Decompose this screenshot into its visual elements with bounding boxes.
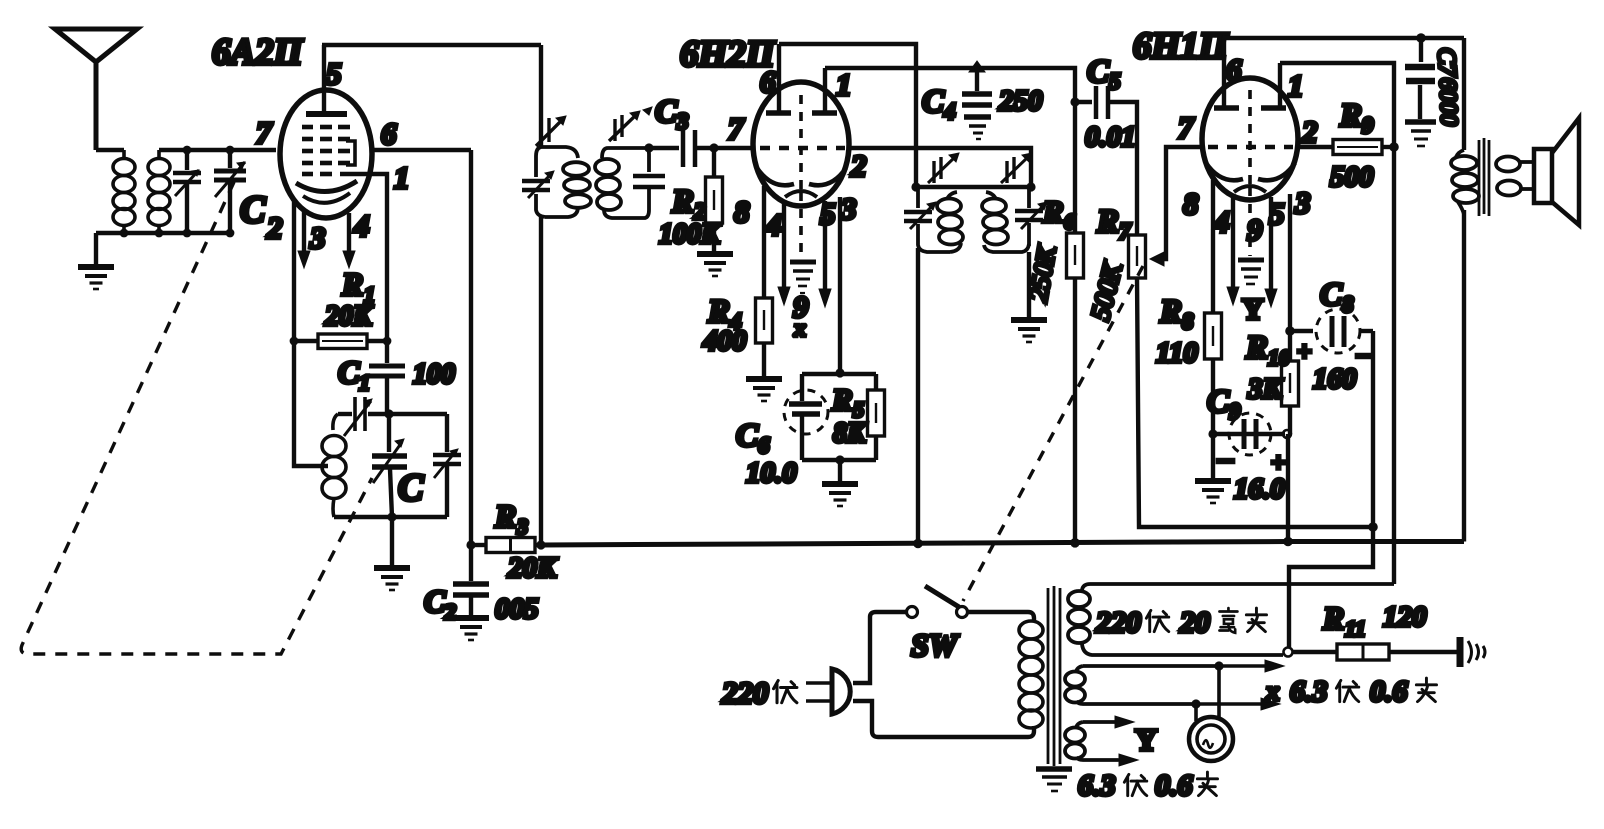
svg-text:C: C xyxy=(424,583,446,619)
wire pin5 to IF1 top xyxy=(322,43,541,47)
svg-text:4: 4 xyxy=(353,208,370,243)
output transformer core xyxy=(1479,138,1489,216)
wire top line pin6 to output transformer xyxy=(1224,36,1464,40)
wire pin1 to C4/C5 xyxy=(825,68,1075,102)
pin 1 lead up xyxy=(1278,63,1282,108)
ground (oscillator) xyxy=(390,517,394,565)
svg-text:9: 9 xyxy=(1229,399,1241,424)
svg-text:4: 4 xyxy=(1213,204,1230,239)
svg-text:C7: C7 xyxy=(1432,47,1461,79)
svg-text:8: 8 xyxy=(1183,186,1199,221)
dashed gang link: SW to R7 xyxy=(963,266,1143,601)
svg-text:5: 5 xyxy=(820,196,836,231)
svg-text:R: R xyxy=(341,266,363,302)
svg-text:C: C xyxy=(655,94,678,130)
R7 wiper arrow to pin 7 of U3 xyxy=(1150,252,1164,266)
tube U3 6N1P envelope xyxy=(1202,78,1298,200)
wire IF1 bottom to R3 node xyxy=(539,217,543,545)
oscillator coil L3 xyxy=(322,414,346,517)
svg-text:6.3: 6.3 xyxy=(1290,675,1328,708)
svg-text:R: R xyxy=(671,184,694,220)
pin 9 shield to ground xyxy=(799,192,803,258)
pin 1 wire down to R1 right xyxy=(340,174,387,341)
wire plug to primary loop xyxy=(853,612,906,683)
svg-text:R: R xyxy=(494,498,516,534)
svg-text:500: 500 xyxy=(1330,161,1374,193)
svg-text:6: 6 xyxy=(1064,209,1075,234)
svg-text:SW: SW xyxy=(911,627,960,663)
node T2 top / C3 xyxy=(644,143,653,152)
switch SW xyxy=(907,607,918,618)
antenna xyxy=(55,29,137,150)
svg-text:1: 1 xyxy=(836,67,852,102)
svg-text:1: 1 xyxy=(359,370,370,395)
svg-text:2: 2 xyxy=(1301,114,1318,149)
variable capacitor C (oscillator gang 2) xyxy=(387,414,391,452)
resistor R5 xyxy=(874,374,878,390)
svg-text:R: R xyxy=(1159,294,1182,330)
pin 6 lead up xyxy=(777,44,781,113)
capacitor C4 xyxy=(969,61,985,72)
svg-text:1: 1 xyxy=(394,160,410,195)
svg-text:R: R xyxy=(1322,600,1344,636)
svg-text:7: 7 xyxy=(728,111,745,146)
resistor R3 xyxy=(466,540,475,549)
svg-text:120: 120 xyxy=(1383,601,1427,633)
pin 2 lead / resistor R9 xyxy=(1298,145,1333,149)
pin 4 filament arrow xyxy=(782,201,786,288)
terminal circle R11 node xyxy=(1284,648,1293,657)
node oscillator tank top xyxy=(384,409,393,418)
svg-text:250: 250 xyxy=(998,85,1043,117)
capacitor C7 xyxy=(1419,38,1423,62)
T3 tuning core 2 xyxy=(1001,153,1032,183)
capacitor C1 xyxy=(385,341,389,363)
svg-text:2: 2 xyxy=(444,599,456,624)
pin 2 wire to T3 xyxy=(849,148,1031,187)
T1 tuning core symbol xyxy=(536,116,566,146)
svg-text:0.6: 0.6 xyxy=(1155,769,1193,802)
resistor R2 xyxy=(712,148,716,177)
tube U1 interior grids xyxy=(296,114,357,203)
svg-text:–: – xyxy=(1356,337,1373,370)
wire antenna to coil L1 xyxy=(96,148,124,152)
capacitor C9 electrolytic xyxy=(1213,432,1285,436)
wire B+ rail step to R11 node xyxy=(1289,527,1373,648)
ground power core xyxy=(1036,769,1072,791)
svg-text:R: R xyxy=(1042,194,1064,229)
wire IF1 primary top xyxy=(539,45,543,147)
svg-text:7: 7 xyxy=(256,115,273,150)
svg-text:110: 110 xyxy=(1156,337,1198,369)
pin 1 lead up xyxy=(823,68,827,113)
IF transformer T1 primary xyxy=(536,147,591,217)
filament secondary winding 6.3V (U2/U3) xyxy=(1065,666,1218,704)
resistor R4 on pin 8 xyxy=(762,186,766,298)
svg-text:C: C xyxy=(338,354,360,390)
svg-text:3: 3 xyxy=(516,514,528,539)
svg-text:3: 3 xyxy=(676,109,689,134)
power transformer primary coil xyxy=(1019,621,1043,728)
svg-text:C: C xyxy=(1320,277,1343,313)
svg-text:3: 3 xyxy=(840,191,857,226)
svg-text:–: – xyxy=(1217,442,1234,475)
svg-text:8: 8 xyxy=(734,194,750,229)
pin 8 / resistor R8 xyxy=(1211,180,1215,313)
svg-text:11: 11 xyxy=(1345,616,1366,641)
svg-text:220: 220 xyxy=(721,675,769,710)
pin 3 wire down to cathode network xyxy=(838,197,842,373)
wire R7 bottom to C8 minus rail xyxy=(1137,278,1373,527)
node input bottom bus xyxy=(96,231,230,235)
svg-text:9: 9 xyxy=(1362,113,1374,138)
output terminal connector xyxy=(1457,637,1464,667)
dashed gang link: tuning C to oscillator C xyxy=(21,182,372,654)
pin 5 lead xyxy=(322,45,326,114)
svg-text:0.01: 0.01 xyxy=(1085,121,1136,153)
capacitor C8 electrolytic xyxy=(1290,329,1313,333)
pin 6 lead up xyxy=(1222,38,1226,108)
svg-text:3: 3 xyxy=(1294,185,1311,220)
ground T3 secondary xyxy=(1027,252,1031,317)
tube U1 6A2P envelope xyxy=(280,90,372,218)
svg-text:0.6: 0.6 xyxy=(1370,675,1408,708)
pin 4 filament arrow xyxy=(347,213,351,252)
svg-text:x: x xyxy=(1265,676,1280,706)
svg-text:8: 8 xyxy=(1182,309,1194,334)
tube U2 interior xyxy=(757,95,846,197)
svg-text:5: 5 xyxy=(1109,69,1121,94)
svg-text:8: 8 xyxy=(1342,292,1354,317)
oscillator trimmer cap xyxy=(338,412,352,416)
capacitor C2 xyxy=(469,545,473,581)
svg-text:6: 6 xyxy=(1226,52,1242,87)
svg-text:6.3: 6.3 xyxy=(1078,769,1116,802)
capacitor C3 xyxy=(649,146,679,150)
svg-text:3K: 3K xyxy=(1247,373,1284,405)
svg-text:Y: Y xyxy=(1135,722,1157,757)
svg-text:8K: 8K xyxy=(833,418,868,449)
svg-text:+: + xyxy=(1297,337,1312,366)
svg-text:10: 10 xyxy=(1268,345,1290,370)
wire tank bottom xyxy=(334,515,447,519)
svg-text:9: 9 xyxy=(1247,212,1263,247)
svg-text:C: C xyxy=(398,467,424,509)
svg-text:2: 2 xyxy=(266,210,283,245)
pin 3 wire down xyxy=(1288,194,1292,331)
ground (input) xyxy=(94,233,98,264)
svg-text:1: 1 xyxy=(1288,68,1304,103)
IF transformer T2 secondary xyxy=(595,148,649,218)
pin 6 wire to R3 node xyxy=(372,148,471,152)
svg-text:5: 5 xyxy=(326,56,342,91)
coil L2 secondary xyxy=(148,150,170,233)
svg-text:6Н1П: 6Н1П xyxy=(1133,26,1229,67)
svg-text:R: R xyxy=(831,382,853,417)
svg-text:5: 5 xyxy=(1269,196,1285,231)
wire T3 primary bottom to bus xyxy=(916,248,920,543)
svg-text:10.0: 10.0 xyxy=(746,457,797,489)
pin 5 filament arrow xyxy=(823,201,827,290)
IF transformer T3 top wire xyxy=(911,182,920,191)
coil L1 primary xyxy=(113,150,135,233)
svg-text:R: R xyxy=(1096,204,1119,240)
svg-text:6А2П: 6А2П xyxy=(212,32,304,73)
output transformer secondary xyxy=(1496,157,1535,196)
svg-text:7: 7 xyxy=(1178,110,1195,145)
speaker xyxy=(1534,149,1552,203)
svg-text:220: 220 xyxy=(1095,606,1141,639)
capacitor C5 xyxy=(1075,100,1092,104)
ground below R8/C9 xyxy=(1211,434,1215,478)
svg-text:6: 6 xyxy=(760,64,776,99)
T2 tuning core symbol xyxy=(609,111,640,141)
filament secondary winding 6.3V (U1 Y) xyxy=(1065,722,1118,760)
svg-text:160: 160 xyxy=(1313,363,1357,395)
svg-text:C: C xyxy=(1207,384,1230,420)
HV secondary winding 220V 20mA xyxy=(1068,584,1394,655)
svg-text:x: x xyxy=(793,316,806,342)
wire C3 to tube pin 7 xyxy=(709,143,718,152)
svg-text:4: 4 xyxy=(943,99,956,124)
svg-text:6: 6 xyxy=(381,116,397,151)
svg-text:100K: 100K xyxy=(659,219,722,250)
potentiometer R7 xyxy=(1129,235,1146,278)
wire pin6 to T3 xyxy=(779,44,916,187)
svg-text:C: C xyxy=(736,418,759,454)
svg-text:R: R xyxy=(1245,330,1268,366)
tube U2 6N2P envelope xyxy=(753,82,849,206)
svg-text:4: 4 xyxy=(765,207,782,242)
svg-text:20K: 20K xyxy=(507,552,558,584)
svg-text:6000: 6000 xyxy=(1434,77,1462,126)
svg-text:2: 2 xyxy=(850,148,867,183)
wire grid bus to tube pin 7 xyxy=(159,148,276,152)
svg-text:20K: 20K xyxy=(324,301,374,332)
wire pin1 to B+ rail xyxy=(1280,63,1394,584)
svg-text:20: 20 xyxy=(1179,606,1210,639)
svg-text:C: C xyxy=(922,84,945,120)
svg-text:C: C xyxy=(1087,54,1110,90)
svg-text:C: C xyxy=(240,189,266,231)
pin 9 shield ground xyxy=(1248,187,1252,256)
node cathode U2 xyxy=(835,368,844,377)
svg-text:6: 6 xyxy=(758,433,770,458)
dial lamp xyxy=(1217,666,1221,719)
oscillator padder cap xyxy=(445,414,449,452)
svg-text:005: 005 xyxy=(495,593,539,625)
wire main ground bus xyxy=(541,542,1464,546)
node C5 left xyxy=(1070,97,1079,106)
capacitor (antenna trimmer) xyxy=(173,150,201,233)
capacitor C6 electrolytic xyxy=(802,372,876,376)
pin 2 wire down to oscillator tap xyxy=(294,200,328,466)
resistor R11 xyxy=(1293,650,1337,654)
node cathode U3 xyxy=(1285,326,1295,336)
power transformer core xyxy=(1048,586,1060,766)
resistor R6 xyxy=(1073,102,1077,233)
T3 secondary (right box) xyxy=(982,187,1029,252)
svg-text:16.0: 16.0 xyxy=(1234,473,1285,505)
svg-text:R: R xyxy=(1339,98,1362,134)
svg-text:7: 7 xyxy=(1119,219,1132,244)
svg-text:400: 400 xyxy=(702,325,747,357)
pin 4 filament arrow xyxy=(1231,197,1235,288)
node / ground below C6R5 xyxy=(835,455,844,464)
wire switch to primary top xyxy=(968,612,1034,622)
T3 primary (left box) xyxy=(918,187,963,252)
svg-text:3: 3 xyxy=(309,220,326,255)
variable capacitor C (tuning gang 1) xyxy=(214,150,246,233)
mains plug xyxy=(806,681,831,685)
T3 tuning core 1 xyxy=(928,153,959,183)
svg-text:+: + xyxy=(1271,448,1286,477)
output transformer primary xyxy=(1462,38,1466,150)
svg-text:Y: Y xyxy=(1242,293,1264,326)
resistor R10 xyxy=(1288,331,1292,361)
pin 3 filament arrow xyxy=(302,210,306,252)
tube U3 interior xyxy=(1206,90,1295,192)
resistor R1 xyxy=(294,339,318,343)
pin 5 filament arrow xyxy=(1269,197,1273,290)
svg-text:100: 100 xyxy=(413,359,455,390)
